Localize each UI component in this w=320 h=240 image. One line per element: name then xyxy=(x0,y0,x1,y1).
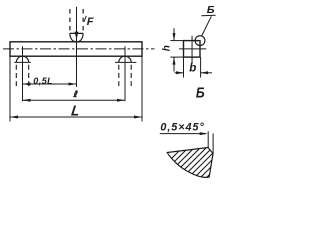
svg-text:b: b xyxy=(189,63,196,75)
svg-text:Б: Б xyxy=(207,4,215,16)
detail fragment outline xyxy=(167,148,213,178)
svg-text:0,5×45°: 0,5×45° xyxy=(160,121,204,133)
right support roller xyxy=(119,56,131,62)
svg-text:Б: Б xyxy=(196,86,205,102)
svg-text:F: F xyxy=(87,16,94,28)
dimension h xyxy=(170,40,183,42)
label l (script ell) xyxy=(73,91,77,97)
right support dashed post xyxy=(118,65,120,86)
chamfer edge line A xyxy=(207,131,209,147)
leader to label B xyxy=(202,16,212,36)
section vertical centerline xyxy=(191,36,193,64)
dimension 0,5L xyxy=(23,83,77,85)
beam centerline xyxy=(3,48,155,50)
section horizontal centerline xyxy=(179,48,206,50)
svg-text:h: h xyxy=(162,45,173,51)
left support dashed post xyxy=(15,65,17,86)
left support roller xyxy=(16,56,28,62)
extension line left xyxy=(9,56,11,121)
detail circle xyxy=(195,36,205,46)
chamfer edge line B xyxy=(212,133,214,153)
chamfer leader line xyxy=(160,133,206,135)
dimension L xyxy=(10,116,142,118)
beam specimen xyxy=(10,42,142,56)
loading nose xyxy=(70,33,83,41)
section B-B square xyxy=(184,41,201,58)
loading ram dashed outline xyxy=(69,9,71,33)
dimension l xyxy=(23,99,126,101)
label F leader tick xyxy=(84,16,86,22)
extension line right xyxy=(141,56,143,121)
dimension b xyxy=(183,57,185,77)
detail hatching xyxy=(148,146,250,182)
force F arrow xyxy=(76,7,78,87)
svg-text:0,5L: 0,5L xyxy=(33,76,53,86)
